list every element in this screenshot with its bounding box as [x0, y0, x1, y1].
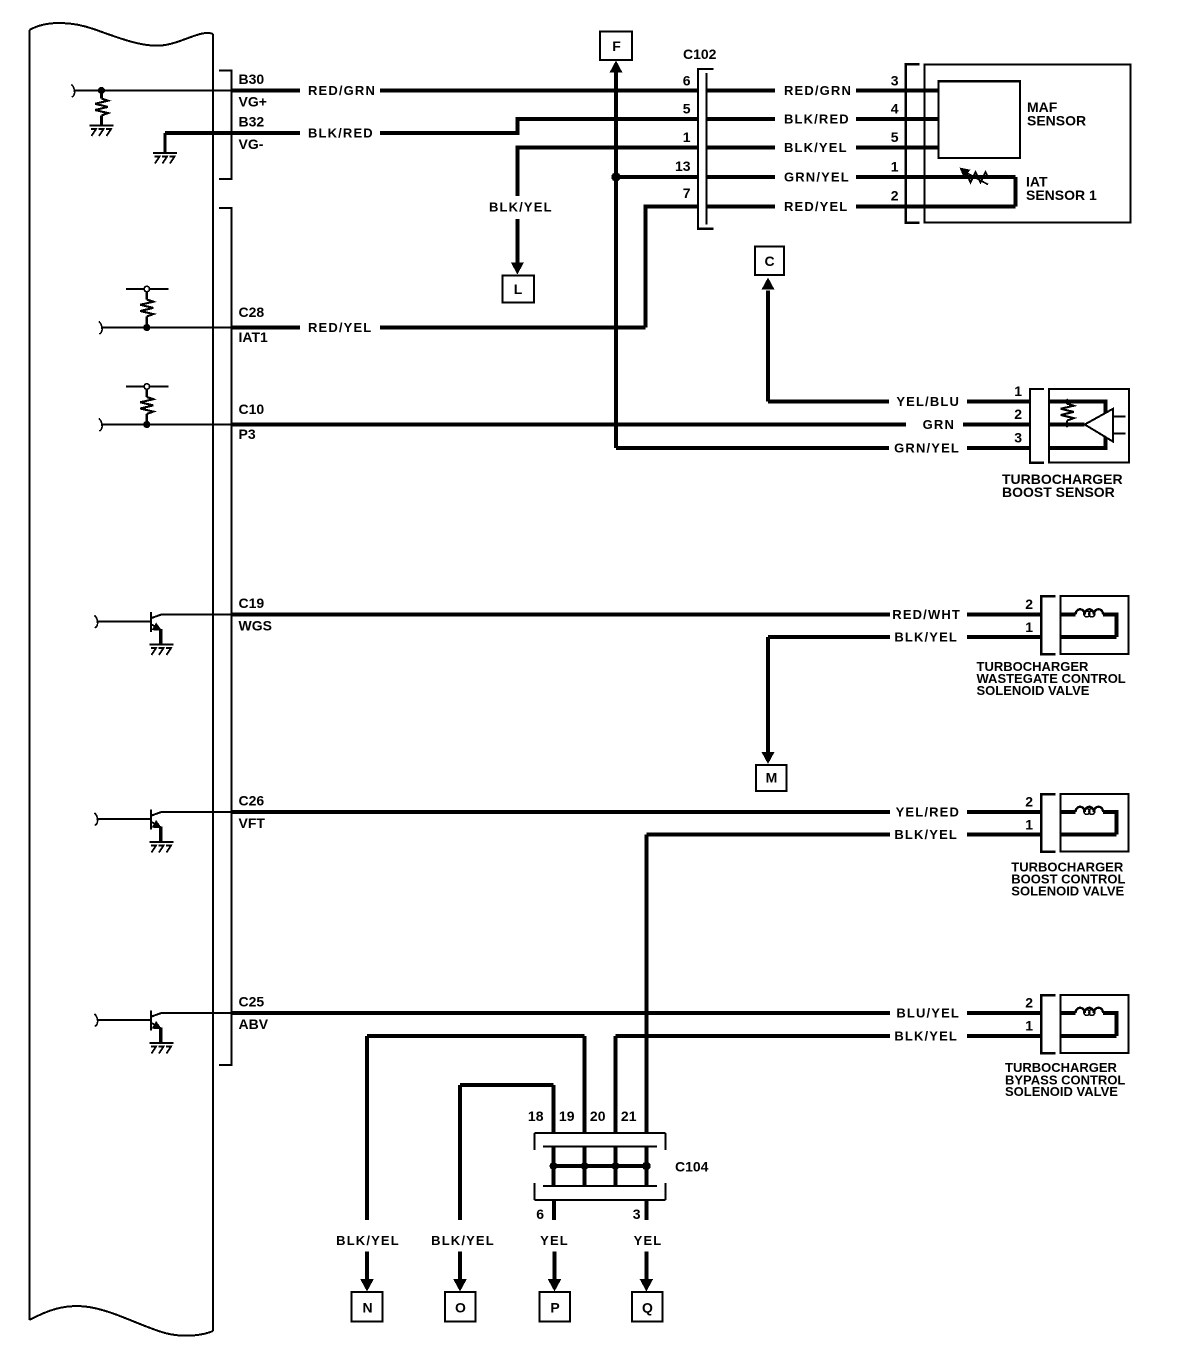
connector C102: [683, 46, 717, 229]
thermistor IAT: [960, 168, 989, 185]
bypass solenoid pin numbers: [1025, 995, 1033, 1034]
wire BLK/YEL C102 pin 1 to L: [489, 148, 698, 265]
connector box N: [352, 1292, 383, 1322]
wire BLK/YEL N to C104 pin 19: [367, 1036, 585, 1133]
wire arrow to N: [360, 1252, 374, 1292]
svg-text:YEL: YEL: [634, 1233, 663, 1248]
wire RED/GRN B30 to C102 pin 6: [232, 83, 699, 98]
ground (VG+ resistor): [90, 126, 114, 137]
svg-text:B32: B32: [239, 114, 265, 130]
svg-text:C: C: [764, 253, 774, 269]
wire YEL C104 pin 3 to Q: [644, 1200, 648, 1220]
resistor (P3 pull-up): [126, 384, 169, 425]
svg-text:21: 21: [621, 1108, 637, 1124]
svg-text:2: 2: [1014, 406, 1022, 422]
wire BLK/YEL boost control solenoid pin 1 to C104 pin 21: [646, 827, 1041, 1133]
svg-text:BOOST SENSOR: BOOST SENSOR: [1002, 484, 1115, 500]
node junction C10 pull-up: [143, 421, 150, 428]
connector box C: [755, 247, 784, 275]
wire GRN/YEL C102 pin 13 to F and boost sensor: [616, 175, 698, 179]
svg-text:BLK/YEL: BLK/YEL: [894, 630, 958, 645]
resistor (boost sensor internal): [1061, 398, 1074, 427]
pin B32 VG- label: [239, 114, 265, 153]
svg-text:GRN: GRN: [923, 417, 955, 432]
wire BLK/YEL bypass solenoid pin 1 to C104 pin 20: [616, 1029, 1042, 1134]
svg-text:N: N: [362, 1300, 372, 1316]
ground (VG-): [153, 153, 177, 164]
svg-text:3: 3: [633, 1206, 641, 1222]
svg-text:7: 7: [683, 185, 691, 201]
node junction bus pin 21: [642, 1162, 651, 1171]
svg-text:YEL/BLU: YEL/BLU: [896, 394, 960, 409]
svg-text:3: 3: [891, 73, 899, 89]
ground (Q3 emitter): [150, 1043, 174, 1054]
connector bracket (B30/B32 group): [219, 71, 232, 180]
svg-text:IAT1: IAT1: [239, 329, 269, 345]
svg-text:2: 2: [1025, 995, 1033, 1011]
svg-text:19: 19: [559, 1108, 575, 1124]
wire Q1 collector to pin: [161, 614, 232, 616]
op-amp (boost sensor): [1085, 409, 1113, 442]
MAF sensor outer box: [924, 64, 1130, 222]
IAT sensor loop: [1014, 177, 1018, 206]
svg-text:C104: C104: [675, 1159, 709, 1175]
node junction F/GRN-YEL: [611, 172, 620, 181]
solenoid coil (boost control): [1060, 807, 1116, 835]
arrow into L: [511, 263, 524, 275]
svg-text:1: 1: [891, 159, 899, 175]
node junction bus pin 20: [612, 1162, 620, 1170]
wire RED/YEL C102 pin 7 to C28: [646, 206, 699, 327]
svg-text:ABV: ABV: [239, 1016, 269, 1032]
wire YEL/BLU C to boost sensor pin 1: [768, 394, 1030, 409]
svg-text:F: F: [612, 38, 621, 54]
svg-text:M: M: [766, 770, 778, 786]
wastegate solenoid pin numbers: [1025, 596, 1033, 635]
svg-text:GRN/YEL: GRN/YEL: [894, 441, 960, 456]
svg-text:BLK/YEL: BLK/YEL: [784, 140, 848, 155]
ground (Q2 emitter): [150, 842, 174, 853]
svg-text:RED/WHT: RED/WHT: [892, 607, 961, 622]
svg-text:2: 2: [1025, 596, 1033, 612]
svg-text:C26: C26: [239, 793, 265, 809]
connector C104: [535, 1133, 709, 1200]
svg-text:Q: Q: [642, 1300, 653, 1316]
wire RED/YEL C28 row: [232, 320, 646, 335]
wire C riser: [766, 291, 770, 402]
wire B32 internal: [165, 131, 232, 135]
wire GRN C10 to boost sensor pin 2: [232, 417, 1031, 432]
boost control connector bracket: [1041, 794, 1055, 852]
resistor (VG+ pull-down): [95, 91, 108, 126]
svg-text:BLK/YEL: BLK/YEL: [894, 827, 958, 842]
IAT SENSOR 1 label: [1026, 174, 1097, 204]
boost sensor internal wires: [1049, 402, 1106, 449]
resistor (IAT1 pull-up): [126, 286, 169, 327]
svg-text:1: 1: [1025, 619, 1033, 635]
svg-text:YEL: YEL: [540, 1233, 569, 1248]
transistor Q3 (ABV driver): [94, 1011, 162, 1043]
svg-text:BLK/YEL: BLK/YEL: [431, 1233, 495, 1248]
wire YEL/RED C26 to boost control solenoid pin 2: [232, 805, 1042, 820]
wire M drop: [766, 637, 770, 753]
wastegate connector bracket: [1041, 596, 1055, 654]
wire GRN/YEL C102 to IAT pin 1: [707, 170, 1016, 185]
TURBOCHARGER BOOST SENSOR label: [1002, 471, 1123, 500]
TURBOCHARGER BYPASS CONTROL SOLENOID VALVE label: [1005, 1060, 1125, 1099]
svg-text:C102: C102: [683, 46, 717, 62]
C104 internal pin wires: [554, 1147, 647, 1187]
svg-text:1: 1: [1025, 817, 1033, 833]
svg-text:4: 4: [891, 101, 899, 117]
turbocharger boost sensor box: [1049, 389, 1129, 463]
svg-text:2: 2: [1025, 794, 1033, 810]
pin B30 VG+ label: [239, 71, 267, 110]
svg-text:BLK/RED: BLK/RED: [308, 126, 374, 141]
wire Q3 collector to pin: [161, 1012, 232, 1014]
connector box F: [600, 32, 632, 61]
boost sensor pin numbers: [1014, 383, 1022, 446]
node junction bus pin 18: [550, 1162, 558, 1170]
connector box L: [503, 275, 534, 302]
node junction bus pin 19: [581, 1162, 589, 1170]
svg-text:B30: B30: [239, 71, 265, 87]
wire RED/YEL C102 to IAT pin 2: [707, 199, 1016, 214]
pin C19 WGS label: [239, 595, 272, 634]
svg-text:RED/YEL: RED/YEL: [308, 320, 372, 335]
svg-text:P: P: [550, 1300, 559, 1316]
svg-text:20: 20: [590, 1108, 606, 1124]
svg-text:C28: C28: [239, 304, 265, 320]
svg-text:VG+: VG+: [239, 94, 267, 110]
svg-text:WGS: WGS: [239, 618, 272, 634]
svg-text:1: 1: [683, 129, 691, 145]
svg-text:5: 5: [683, 101, 691, 117]
boost control solenoid pin numbers: [1025, 794, 1033, 833]
wire O drop: [458, 1085, 462, 1220]
wire BLK/RED B32 to C102 pin 5: [232, 119, 699, 141]
wire arrow to O: [453, 1252, 467, 1292]
transistor Q1 (WGS driver): [94, 612, 162, 644]
svg-text:RED/GRN: RED/GRN: [308, 83, 376, 98]
wire arrow to Q: [640, 1252, 654, 1292]
svg-text:18: 18: [528, 1108, 544, 1124]
svg-text:C19: C19: [239, 595, 265, 611]
svg-text:1: 1: [1014, 383, 1022, 399]
pin C25 ABV label: [239, 994, 269, 1033]
svg-text:BLK/YEL: BLK/YEL: [336, 1233, 400, 1248]
svg-text:RED/GRN: RED/GRN: [784, 83, 852, 98]
turbocharger bypass control solenoid valve box: [1060, 995, 1128, 1053]
svg-text:2: 2: [891, 188, 899, 204]
wire N drop: [365, 1036, 369, 1220]
pin C10 P3 label: [239, 401, 265, 442]
connector box O: [445, 1292, 476, 1322]
boost sensor connector bracket: [1030, 389, 1044, 463]
TURBOCHARGER BOOST CONTROL SOLENOID VALVE label: [1011, 860, 1125, 899]
connector box M: [756, 765, 787, 791]
svg-text:C25: C25: [239, 994, 265, 1010]
bypass connector bracket: [1041, 995, 1055, 1053]
svg-text:3: 3: [1014, 430, 1022, 446]
svg-text:P3: P3: [239, 426, 256, 442]
svg-text:SOLENOID VALVE: SOLENOID VALVE: [1005, 1084, 1118, 1099]
arrow into M: [762, 752, 775, 764]
svg-text:O: O: [455, 1300, 466, 1316]
wire BLK/YEL O to C104 pin 18: [460, 1085, 554, 1133]
svg-text:SOLENOID VALVE: SOLENOID VALVE: [1011, 884, 1124, 899]
svg-text:SENSOR: SENSOR: [1027, 113, 1086, 129]
wire B30 internal: [71, 85, 231, 98]
C104 internal bus: [554, 1164, 647, 1168]
transistor Q2 (VFT driver): [94, 810, 162, 842]
wire BLU/YEL C25 to bypass solenoid pin 2: [232, 1006, 1042, 1021]
svg-text:BLK/RED: BLK/RED: [784, 112, 850, 127]
wire RED/WHT C19 to wastegate solenoid pin 2: [232, 607, 1042, 622]
pin C26 VFT label: [239, 793, 266, 832]
svg-text:VG-: VG-: [239, 136, 264, 152]
solenoid coil (bypass): [1060, 1008, 1116, 1036]
MAF SENSOR label: [1027, 99, 1086, 129]
svg-text:1: 1: [1025, 1018, 1033, 1034]
turbocharger wastegate control solenoid valve box: [1060, 596, 1128, 654]
ground (Q1 emitter): [150, 645, 174, 656]
svg-text:SENSOR 1: SENSOR 1: [1026, 187, 1097, 203]
wire BLK/YEL M to wastegate solenoid pin 1: [768, 630, 1041, 645]
arrow into F: [610, 61, 623, 73]
boost sensor output stubs: [1113, 417, 1125, 434]
connector box Q: [632, 1292, 663, 1322]
arrow into C: [762, 278, 775, 290]
wire C28 internal: [99, 322, 232, 335]
svg-text:YEL/RED: YEL/RED: [896, 805, 960, 820]
svg-text:6: 6: [536, 1206, 544, 1222]
MAF pin numbers: [891, 73, 899, 204]
wire RED/GRN C102 to MAF pin 3: [707, 83, 939, 98]
wire GRN/YEL F to boost sensor pin 3: [616, 441, 1030, 456]
pin C28 IAT1 label: [239, 304, 269, 345]
svg-text:BLU/YEL: BLU/YEL: [896, 1006, 960, 1021]
svg-text:L: L: [514, 281, 523, 297]
wire arrow to P: [548, 1252, 562, 1292]
svg-text:6: 6: [683, 73, 691, 89]
wire B32 ground drop: [164, 133, 167, 153]
svg-text:SOLENOID VALVE: SOLENOID VALVE: [977, 683, 1090, 698]
TURBOCHARGER WASTEGATE CONTROL SOLENOID VALVE label: [977, 659, 1126, 698]
connector bracket (C28..C25 group): [219, 208, 232, 1065]
svg-text:RED/YEL: RED/YEL: [784, 199, 848, 214]
svg-text:BLK/YEL: BLK/YEL: [894, 1029, 958, 1044]
MAF connector bracket: [906, 64, 920, 222]
svg-text:13: 13: [675, 158, 691, 174]
C104 bottom pin numbers: [536, 1206, 641, 1222]
node junction C28 pull-up: [143, 324, 150, 331]
solenoid coil (wastegate): [1060, 609, 1116, 637]
turbocharger boost control solenoid valve box: [1060, 794, 1128, 852]
connector box P: [540, 1292, 571, 1322]
svg-text:GRN/YEL: GRN/YEL: [784, 170, 850, 185]
node junction B30 pull-down: [98, 87, 105, 94]
C104 top pin numbers: [528, 1108, 637, 1124]
MAF sensor inner element: [939, 81, 1020, 158]
svg-text:BLK/YEL: BLK/YEL: [489, 200, 553, 215]
svg-text:C10: C10: [239, 401, 265, 417]
svg-text:VFT: VFT: [239, 815, 266, 831]
wire C10 internal: [99, 419, 232, 432]
wire BLK/RED C102 to MAF pin 4: [707, 112, 939, 127]
ECM/PCM module body (torn-edge band): [30, 23, 214, 1336]
svg-text:5: 5: [891, 129, 899, 145]
wire YEL C104 pin 6 to P: [552, 1200, 556, 1220]
wire BLK/YEL C102 to MAF pin 5: [707, 140, 939, 155]
wire Q2 collector to pin: [161, 811, 232, 813]
C102 left pin numbers: [675, 73, 691, 202]
wire F riser: [614, 72, 618, 449]
